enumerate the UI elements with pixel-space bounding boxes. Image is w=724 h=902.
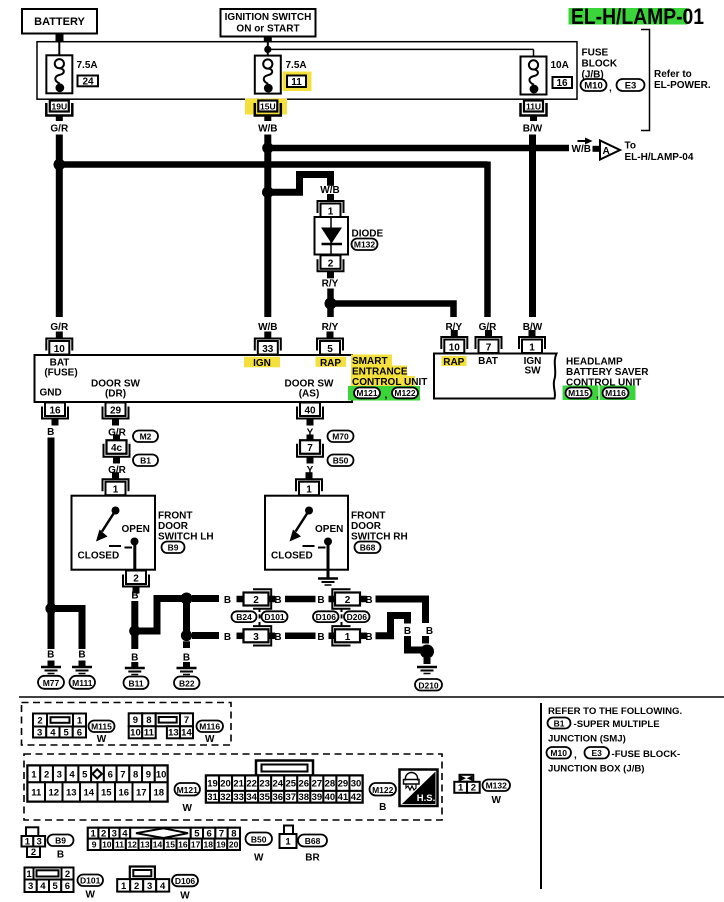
node R/Y junction	[325, 298, 337, 310]
B9 face ref oval	[48, 835, 74, 861]
svg-text:E3: E3	[591, 748, 602, 758]
M122 face ref oval	[370, 783, 397, 813]
pin 16 smart entrance bottom	[42, 403, 68, 426]
svg-text:M122: M122	[394, 388, 416, 398]
svg-text:2: 2	[345, 595, 351, 606]
svg-text:W/B: W/B	[258, 124, 277, 135]
battery	[22, 9, 97, 34]
wire D206-1 toward D210	[376, 616, 408, 636]
fuse 7.5A #24	[46, 55, 72, 93]
svg-text:35: 35	[259, 792, 270, 803]
B50 face ref oval	[246, 833, 273, 864]
unit pin labels	[40, 358, 342, 400]
svg-text:ENTRANCE: ENTRANCE	[352, 367, 408, 378]
svg-text:R/Y: R/Y	[322, 322, 339, 333]
pin 7 headlamp battery saver	[476, 330, 502, 354]
svg-text:19: 19	[207, 779, 218, 790]
connector 11U	[521, 101, 547, 122]
node D210 junction	[420, 645, 434, 659]
diode M132	[315, 217, 349, 255]
svg-text:B: B	[317, 595, 324, 606]
svg-text:GND: GND	[40, 388, 62, 399]
wire open contact to pin 2	[133, 542, 136, 571]
svg-text:12: 12	[48, 787, 59, 798]
svg-text:RAP: RAP	[443, 357, 464, 368]
diode pin 2	[318, 255, 344, 278]
svg-text:1: 1	[26, 869, 32, 880]
M70 ref oval	[328, 431, 354, 443]
svg-text:4c: 4c	[111, 443, 123, 454]
svg-text:14: 14	[83, 787, 94, 798]
wire G/R vertical left	[56, 135, 63, 318]
wire G/R bus to headlamp unit	[59, 162, 487, 318]
svg-text:W: W	[180, 891, 190, 902]
B22 ref oval	[174, 677, 200, 690]
M111 ref oval	[70, 676, 96, 689]
node G/R junction	[54, 159, 66, 171]
svg-text:11: 11	[291, 77, 302, 88]
svg-text:B68: B68	[360, 543, 376, 553]
pin 29 smart entrance bottom	[103, 403, 129, 426]
svg-text:HEADLAMP: HEADLAMP	[566, 357, 623, 368]
svg-text:OPEN: OPEN	[315, 524, 343, 535]
svg-text:2: 2	[31, 847, 36, 858]
dashed box M115 M116	[22, 703, 232, 746]
fuse block (J/B) box	[37, 42, 577, 99]
svg-text:37: 37	[285, 792, 296, 803]
svg-text:1: 1	[285, 837, 291, 848]
svg-text:R/Y: R/Y	[322, 278, 339, 289]
M10 ref oval 2	[547, 747, 572, 759]
svg-text:D106: D106	[175, 876, 196, 886]
pin 1 headlamp battery saver	[519, 330, 545, 354]
svg-text:M121: M121	[356, 388, 378, 398]
node bus junction upper	[181, 593, 193, 605]
svg-text:B50: B50	[333, 456, 349, 466]
svg-text:(DR): (DR)	[105, 389, 126, 400]
svg-text:,: ,	[609, 83, 612, 94]
switch LH pivot	[112, 507, 120, 515]
connector 19U	[46, 101, 72, 122]
fuse 24 label	[77, 60, 99, 88]
D101 ref oval	[262, 611, 288, 622]
svg-text:3: 3	[253, 632, 259, 643]
svg-text:W: W	[491, 795, 501, 806]
svg-text:25: 25	[285, 779, 296, 790]
headlamp battery saver control unit box	[434, 354, 557, 399]
svg-text:JUNCTION (SMJ): JUNCTION (SMJ)	[548, 734, 626, 745]
wire diode output	[327, 289, 334, 318]
connector 15U highlighted	[245, 99, 287, 122]
svg-text:4: 4	[160, 881, 166, 892]
svg-text:M77: M77	[43, 678, 60, 688]
svg-text:1: 1	[306, 485, 312, 496]
svg-text:24: 24	[272, 779, 283, 790]
svg-text:-SUPER MULTIPLE: -SUPER MULTIPLE	[574, 719, 661, 730]
pin 5 smart entrance	[317, 332, 343, 356]
svg-text:9: 9	[146, 769, 151, 780]
svg-text:M115: M115	[568, 388, 589, 398]
svg-text:9: 9	[92, 840, 97, 850]
svg-text:B: B	[183, 653, 190, 664]
wire ignition switch to fuse block	[264, 37, 272, 58]
svg-text:13: 13	[168, 728, 179, 739]
refer to EL-POWER text	[654, 69, 711, 91]
svg-text:7.5A: 7.5A	[77, 60, 98, 71]
svg-text:B: B	[274, 632, 281, 643]
svg-text:2: 2	[133, 574, 139, 585]
svg-text:B1: B1	[554, 718, 565, 728]
inline connector 1 D206 side	[329, 626, 368, 645]
wire to fuse 16	[268, 49, 534, 56]
svg-text:2: 2	[471, 783, 476, 794]
svg-text:M2: M2	[140, 432, 152, 442]
svg-text:30: 30	[351, 779, 362, 790]
right panel divider	[540, 703, 542, 889]
B9 ref oval	[162, 542, 185, 554]
fuse block text	[582, 48, 618, 81]
front door switch LH box	[72, 496, 156, 570]
svg-text:27: 27	[312, 779, 323, 790]
front door switch LH pin 1	[103, 472, 129, 496]
connector D106 face	[117, 867, 169, 892]
connector M116 face	[129, 713, 193, 738]
svg-text:6: 6	[108, 769, 113, 780]
node ignition feed junction	[264, 46, 271, 53]
switch RH closed contact	[303, 545, 315, 547]
switch RH labels	[271, 524, 343, 562]
connector M121 face	[28, 766, 168, 802]
svg-text:5: 5	[327, 344, 333, 355]
SMJ connector 4c	[104, 435, 130, 464]
connector arrow A to EL-H/LAMP-04	[600, 141, 620, 160]
svg-text:B: B	[131, 653, 138, 664]
svg-text:10: 10	[156, 769, 167, 780]
svg-text:29: 29	[338, 779, 349, 790]
connector D101 face	[25, 868, 74, 893]
ground B11	[125, 662, 145, 675]
svg-text:7: 7	[486, 343, 492, 354]
refer to EL-POWER bracket	[641, 30, 650, 131]
svg-text:B24: B24	[236, 612, 252, 622]
switch LH open contact	[125, 538, 139, 548]
svg-text:M115: M115	[91, 722, 112, 732]
svg-text:34: 34	[246, 792, 257, 803]
svg-text:3: 3	[57, 769, 62, 780]
B11 ref oval	[124, 677, 149, 690]
wire to connector B24-3	[192, 632, 219, 639]
svg-text:6: 6	[77, 727, 82, 738]
wire D206-2 to D210	[376, 599, 426, 623]
svg-text:B: B	[317, 632, 324, 643]
svg-text:SW: SW	[524, 366, 541, 377]
svg-text:17: 17	[136, 787, 147, 798]
inline connector 2 D206 side	[329, 589, 368, 608]
wire stub above D210 dot	[422, 636, 429, 644]
smart entrance control unit box	[35, 355, 353, 402]
pin 40 smart entrance bottom	[297, 403, 323, 426]
svg-text:19: 19	[216, 840, 226, 850]
inline connector 3 B24 side	[237, 626, 276, 645]
svg-text:14: 14	[153, 840, 163, 850]
svg-text:5: 5	[82, 769, 88, 780]
svg-text:B: B	[47, 650, 54, 661]
connector M115 face	[33, 714, 86, 739]
svg-text:10: 10	[102, 840, 112, 850]
front door switch RH box	[265, 496, 348, 570]
svg-text:2: 2	[37, 715, 42, 726]
svg-text:40: 40	[325, 792, 336, 803]
svg-text:BAT: BAT	[478, 356, 498, 367]
svg-text:BATTERY: BATTERY	[34, 16, 85, 28]
svg-text:31: 31	[207, 792, 218, 803]
ground switch RH	[318, 579, 338, 586]
svg-text:B9: B9	[55, 836, 66, 846]
M121 face ref oval	[175, 783, 201, 814]
smart entrance control unit label highlighted	[351, 355, 427, 389]
switch RH arm	[290, 511, 310, 542]
wire W/B vertical	[264, 135, 271, 318]
svg-text:9: 9	[133, 715, 138, 726]
svg-text:D101: D101	[264, 612, 285, 622]
svg-text:5: 5	[63, 727, 69, 738]
svg-text:18: 18	[153, 787, 164, 798]
connector M132 face	[454, 775, 479, 794]
RAP highlight headlamp	[442, 356, 467, 366]
svg-text:11: 11	[115, 840, 124, 850]
headlamp unit pin labels	[443, 356, 541, 376]
svg-text:39: 39	[312, 792, 323, 803]
svg-text:FRONT: FRONT	[351, 511, 385, 522]
ignition switch	[221, 9, 316, 37]
svg-text:20: 20	[220, 779, 231, 790]
svg-text:2: 2	[328, 259, 334, 270]
H.S. view logo	[400, 770, 438, 807]
wire to connector B24-2	[192, 595, 219, 602]
svg-text:2: 2	[65, 869, 70, 880]
svg-text:W/B: W/B	[258, 322, 277, 333]
svg-text:26: 26	[299, 779, 310, 790]
wire junction to bus	[135, 599, 187, 632]
separator line	[19, 696, 724, 698]
svg-text:10: 10	[54, 344, 66, 355]
wire open contact RH to ground	[327, 542, 330, 579]
svg-text:21: 21	[233, 779, 244, 790]
svg-text:B: B	[131, 591, 138, 602]
M115 M116 refs highlighted	[563, 386, 636, 402]
svg-text:M122: M122	[372, 785, 394, 795]
front door switch LH label	[158, 511, 214, 543]
svg-text:W/B: W/B	[572, 144, 591, 155]
headlamp battery saver label	[566, 357, 649, 389]
svg-text:36: 36	[272, 792, 283, 803]
svg-text:42: 42	[351, 792, 362, 803]
svg-text:G/R: G/R	[50, 322, 69, 333]
svg-text:17: 17	[191, 840, 201, 850]
svg-text:B: B	[426, 626, 433, 637]
svg-text:CLOSED: CLOSED	[271, 551, 313, 562]
svg-text:1: 1	[77, 715, 83, 726]
ground M77	[41, 661, 61, 674]
svg-text:-FUSE BLOCK-: -FUSE BLOCK-	[612, 749, 681, 760]
svg-text:M10: M10	[584, 81, 602, 92]
svg-text:7.5A: 7.5A	[286, 60, 307, 71]
svg-text:8: 8	[146, 715, 151, 726]
M121 M122 refs highlighted	[348, 386, 420, 401]
ground M111	[72, 661, 92, 674]
wire W/B bus to EL-H/LAMP-04	[268, 145, 569, 152]
svg-text:1: 1	[345, 632, 351, 643]
node B11 junction	[129, 625, 140, 636]
svg-text:40: 40	[304, 406, 316, 417]
svg-text:H.S.: H.S.	[417, 793, 435, 804]
svg-text:EL-H/LAMP-01: EL-H/LAMP-01	[571, 4, 704, 29]
svg-text:32: 32	[220, 792, 231, 803]
wire stub B22	[183, 641, 190, 648]
svg-text:22: 22	[246, 779, 257, 790]
svg-text:M116: M116	[199, 722, 220, 732]
svg-text:1: 1	[31, 769, 37, 780]
svg-text:JUNCTION BOX (J/B): JUNCTION BOX (J/B)	[548, 764, 644, 775]
wire branch to diode	[268, 175, 331, 193]
fuse 10A #16	[521, 57, 547, 95]
svg-text:41: 41	[338, 792, 349, 803]
svg-text:B1: B1	[140, 456, 151, 466]
node gnd junction	[45, 603, 56, 614]
svg-text:3: 3	[28, 881, 33, 892]
svg-text:28: 28	[325, 779, 336, 790]
B68 face ref oval	[298, 835, 327, 864]
connector joint tick lower 2	[341, 622, 343, 626]
E3 ref oval 2	[585, 747, 610, 759]
wire GND vertical	[48, 438, 55, 650]
svg-text:B: B	[365, 595, 372, 606]
wire B/W vertical	[529, 135, 536, 318]
svg-text:B: B	[274, 595, 281, 606]
svg-text:DOOR: DOOR	[351, 521, 382, 532]
wire bus down	[183, 599, 190, 636]
B1 ref oval	[133, 455, 158, 467]
svg-text:W: W	[97, 734, 107, 745]
M2 ref oval	[133, 431, 158, 443]
connector B9 face	[22, 827, 46, 858]
svg-text:REFER TO THE FOLLOWING.: REFER TO THE FOLLOWING.	[548, 706, 682, 717]
svg-text:,: ,	[596, 390, 599, 401]
connector joint tick upper 2	[341, 609, 343, 612]
pin 10 headlamp battery saver	[441, 330, 467, 354]
svg-text:B50: B50	[251, 834, 267, 844]
svg-text:B: B	[365, 632, 372, 643]
svg-text:D106: D106	[316, 612, 337, 622]
M10 connector ref	[581, 79, 607, 92]
svg-text:IGN: IGN	[253, 358, 271, 369]
svg-text:B: B	[379, 802, 386, 813]
wire gnd branch	[51, 609, 82, 650]
wire between connector pairs row1	[285, 596, 316, 603]
svg-text:1: 1	[113, 485, 119, 496]
svg-text:B: B	[404, 626, 411, 637]
svg-text:B: B	[224, 632, 231, 643]
svg-text:SMART: SMART	[352, 356, 388, 367]
wire stub at arrow A	[593, 146, 600, 152]
M132 face ref oval	[483, 780, 511, 807]
switch RH pivot	[305, 507, 313, 515]
svg-text:3: 3	[37, 727, 42, 738]
ground B22	[177, 662, 197, 675]
svg-text:A: A	[603, 146, 610, 157]
svg-text:B/W: B/W	[523, 124, 543, 135]
svg-text:FRONT: FRONT	[158, 511, 192, 522]
switch LH closed contact	[109, 545, 121, 547]
svg-text:W: W	[254, 853, 264, 864]
dashed box M121 M122	[24, 754, 442, 820]
M77 ref oval	[38, 676, 64, 689]
svg-text:16: 16	[178, 840, 188, 850]
svg-text:7: 7	[120, 769, 125, 780]
svg-text:1: 1	[529, 343, 535, 354]
switch LH labels	[78, 524, 150, 562]
svg-text:M132: M132	[354, 240, 376, 250]
wire mid vertical to D210 dot	[408, 636, 425, 650]
svg-text:16: 16	[556, 78, 568, 89]
svg-text:OPEN: OPEN	[122, 524, 150, 535]
svg-text:IGNITION SWITCH: IGNITION SWITCH	[225, 12, 312, 23]
direction arrow glyph	[578, 138, 593, 145]
svg-text:33: 33	[262, 344, 274, 355]
svg-text:M132: M132	[486, 781, 508, 791]
svg-text:EL-POWER.: EL-POWER.	[654, 80, 711, 91]
svg-text:BR: BR	[305, 853, 320, 864]
connector B68 face	[280, 826, 297, 849]
fuse 11 label highlighted	[283, 60, 312, 91]
D210 ref oval	[415, 679, 442, 691]
svg-text:B: B	[47, 427, 54, 438]
svg-text:6: 6	[65, 881, 70, 892]
fuse 7.5A #11	[255, 56, 281, 94]
SMJ connector 7	[297, 435, 323, 464]
svg-text:BATTERY SAVER: BATTERY SAVER	[566, 367, 649, 378]
B68 ref oval	[355, 542, 381, 554]
svg-text:M121: M121	[177, 785, 199, 795]
IGN highlight	[244, 357, 280, 368]
svg-text:11: 11	[31, 787, 42, 798]
svg-text:M116: M116	[605, 388, 626, 398]
RAP highlight	[316, 357, 347, 367]
svg-text:19U: 19U	[52, 101, 68, 111]
svg-text:11U: 11U	[526, 101, 541, 111]
svg-text:29: 29	[110, 406, 122, 417]
svg-text:3: 3	[147, 881, 152, 892]
svg-text:5: 5	[52, 881, 58, 892]
svg-text:(FUSE): (FUSE)	[44, 368, 77, 379]
svg-text:38: 38	[299, 792, 310, 803]
svg-text:13: 13	[66, 787, 77, 798]
svg-text:13: 13	[140, 840, 150, 850]
svg-text:33: 33	[233, 792, 244, 803]
svg-text:1: 1	[328, 207, 334, 218]
svg-text:15: 15	[101, 787, 112, 798]
svg-text:8: 8	[133, 769, 138, 780]
wire between connector pairs row2	[285, 633, 316, 640]
wire battery to fuse block	[56, 34, 64, 57]
svg-text:M70: M70	[332, 432, 349, 442]
B1 ref oval	[548, 718, 571, 729]
svg-text:2: 2	[44, 769, 49, 780]
M132 ref oval	[352, 239, 378, 251]
connector joint dot	[259, 614, 261, 618]
svg-text:W: W	[205, 734, 215, 745]
D101 face ref oval	[78, 875, 104, 901]
